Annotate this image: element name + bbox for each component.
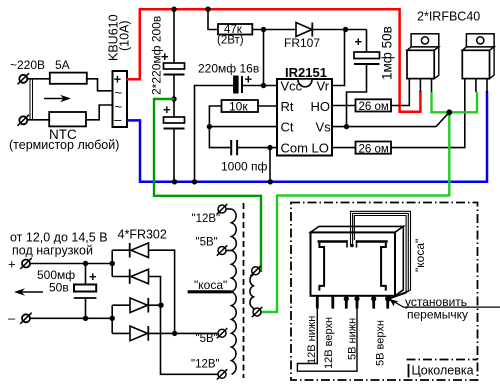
fuse F1 5A <box>50 73 87 84</box>
svg-text:Com: Com <box>281 141 308 156</box>
svg-text:+: + <box>163 102 171 117</box>
capacitor Ct 1000pf <box>231 140 277 155</box>
junction dot red rail cap <box>171 7 176 12</box>
wire D1 cathode left <box>112 249 130 251</box>
svg-text:"12В": "12В" <box>191 359 220 371</box>
kosa wire end blob <box>350 244 354 248</box>
wire Vs diagonal to midpoint <box>436 112 449 126</box>
wire D2 anode right <box>149 277 218 375</box>
svg-text:(2Вт): (2Вт) <box>217 35 244 47</box>
jumper wire pin1 to pin4 <box>297 309 357 372</box>
bobbin window outline <box>318 240 388 290</box>
resistor Rt 10k <box>222 100 259 112</box>
junction dot Com node <box>267 145 272 150</box>
svg-text:26 ом: 26 ом <box>359 143 389 155</box>
terminal tap 5V top <box>217 245 232 255</box>
bobbin 3d top face <box>311 226 404 232</box>
svg-text:"коса": "коса" <box>194 278 227 292</box>
junction dot minus cap <box>83 316 88 321</box>
svg-text:+: + <box>89 269 97 284</box>
wire D4 cathode to 5V tap <box>148 332 218 334</box>
terminal tap 12V top <box>217 204 232 214</box>
wire D4 anode left <box>112 332 130 334</box>
svg-text:Ct: Ct <box>281 120 294 135</box>
resistor 26 ohm HO <box>356 99 392 111</box>
wire Vs line <box>332 126 436 128</box>
kosa wire bundle <box>351 211 411 299</box>
capacitor C4 1mf 50v bootstrap <box>347 30 380 127</box>
wire Vcc feed vertical <box>263 30 265 86</box>
pin solder balls <box>344 296 392 302</box>
svg-text:50в: 50в <box>49 281 69 295</box>
node capacitor midpoint <box>171 96 176 101</box>
capacitor 500mf 50v <box>74 264 97 319</box>
diode D4 FR302 <box>130 326 148 341</box>
junction dot boot node <box>343 27 348 32</box>
terminal tap 12V bottom <box>217 369 228 379</box>
wire input top <box>28 78 50 80</box>
capacitor C2 220mf 200v bottom <box>163 99 185 182</box>
wire HO pin to gate resistor <box>332 105 356 107</box>
transformer T1 secondary winding <box>232 209 237 374</box>
wire D2 cathode left <box>112 276 130 278</box>
wire fuse to bridge <box>87 79 113 91</box>
wire FR107 to boot node <box>312 29 366 31</box>
wire minus bus diodes <box>111 305 113 333</box>
junction dot Vs boot <box>344 124 349 129</box>
wire Ct line <box>209 126 277 128</box>
svg-text:12В верхн: 12В верхн <box>323 317 335 369</box>
terminal output minus <box>8 311 32 326</box>
svg-text:1000 пф: 1000 пф <box>221 160 268 174</box>
capacitor C3 220mf 16v <box>195 71 278 181</box>
svg-text:"коса": "коса" <box>413 239 427 272</box>
wire input bottom <box>28 119 50 121</box>
transformer T1 primary winding <box>250 271 258 312</box>
svg-text:+: + <box>8 257 16 272</box>
svg-text:(термистор любой): (термистор любой) <box>9 138 119 152</box>
junction dot half-bridge midpoint <box>446 109 452 115</box>
svg-text:5В верхн: 5В верхн <box>375 320 387 366</box>
wire Com node to blue rail <box>269 148 271 182</box>
junction dot 47k feed <box>205 7 210 12</box>
junction dot D3 tap <box>158 303 163 308</box>
junction dot plus bus <box>110 261 115 266</box>
wire 47k to FR107 <box>252 29 296 31</box>
svg-text:4*FR302: 4*FR302 <box>118 227 167 241</box>
diode D1 FR302 <box>130 243 149 258</box>
junction dot blue rail cap <box>172 179 177 184</box>
terminal output plus <box>8 257 32 272</box>
wire 26om to M1 gate <box>391 79 409 106</box>
junction dot plus cap <box>83 261 88 266</box>
svg-text:–: – <box>114 112 122 127</box>
arrow output direction <box>14 288 43 296</box>
wire kosa thick <box>188 290 232 293</box>
label KBU610 (10A) rotated <box>106 14 131 61</box>
junction dot Vcc node <box>261 83 266 88</box>
wire green A cap midpoint to primary top <box>154 99 261 271</box>
terminal primary top <box>251 266 262 276</box>
terminal input bottom <box>18 115 30 126</box>
svg-text:5А: 5А <box>55 58 70 72</box>
svg-text:Rt: Rt <box>281 99 294 114</box>
wire boot node to Vr pin <box>332 30 346 86</box>
arrow install jumper <box>390 299 500 307</box>
svg-text:+: + <box>245 71 253 86</box>
bridge rectifier KBU610 <box>113 71 128 127</box>
wire LO pin to gate resistor <box>332 147 356 149</box>
svg-text:+: + <box>161 49 169 64</box>
wire rail to 47k <box>208 9 218 29</box>
capacitor C1 220mf 200v top <box>161 9 185 99</box>
resistor 47k <box>218 24 252 35</box>
wire D3 cathode right <box>148 304 161 306</box>
bobbin pins <box>317 296 387 309</box>
wire green B midpoint to primary bottom <box>261 112 449 312</box>
diode FR107 <box>296 23 312 37</box>
arrow current direction <box>44 95 71 103</box>
svg-text:1мф 50в: 1мф 50в <box>379 26 394 80</box>
svg-text:+: + <box>355 34 363 49</box>
wire Ct node down to 1000pf <box>209 127 231 148</box>
transistor Q2 IRFBC40 <box>462 34 494 92</box>
label tsokolevka <box>408 364 410 378</box>
terminal input top <box>18 73 30 84</box>
label ~220V 5A <box>10 58 70 72</box>
svg-text:~220В: ~220В <box>10 58 45 72</box>
junction dot Vcc feed <box>261 27 266 32</box>
wire D3 anode left <box>112 304 130 306</box>
terminal primary bottom <box>252 307 262 317</box>
junction dot blue rail C3 <box>192 179 197 184</box>
svg-text:LO: LO <box>312 141 329 156</box>
transistor Q1 IRFBC40 <box>407 34 439 92</box>
svg-text:под нагрузкой: под нагрузкой <box>12 243 93 257</box>
wire output minus <box>30 317 112 319</box>
svg-text:"5В": "5В" <box>196 237 218 249</box>
svg-text:"5В": "5В" <box>196 333 218 345</box>
wire blue negative rail <box>127 91 488 182</box>
svg-text:IR2151: IR2151 <box>285 65 327 80</box>
cable pair lines <box>30 79 33 120</box>
svg-text:перемычку: перемычку <box>407 308 468 322</box>
svg-text:5В нижн: 5В нижн <box>347 318 359 360</box>
terminal tap 5V bottom <box>217 328 228 338</box>
svg-text:Цоколевка: Цоколевка <box>412 364 474 378</box>
junction dot blue rail Com <box>268 179 273 184</box>
svg-text:Vcc: Vcc <box>281 79 303 94</box>
bobbin front face <box>311 232 396 295</box>
bobbin 3d right face <box>395 226 403 295</box>
transformer core dashed <box>243 203 245 378</box>
svg-text:10к: 10к <box>229 100 248 114</box>
svg-text:26 ом: 26 ом <box>359 101 389 113</box>
svg-text:HO: HO <box>311 99 331 114</box>
svg-text:(10А): (10А) <box>118 20 132 51</box>
wire 10k right to Rt pin <box>258 105 277 107</box>
thermistor NTC <box>49 112 86 126</box>
diode D3 FR302 <box>130 298 148 313</box>
IC IR2151 U1 <box>277 79 332 156</box>
svg-text:12В нижн: 12В нижн <box>306 316 318 364</box>
junction dot minus bus <box>110 316 115 321</box>
svg-text:"12В": "12В" <box>192 213 221 225</box>
resistor 26 ohm LO <box>356 142 392 154</box>
wire green midpoint M1 source to M2 drain <box>432 92 478 112</box>
svg-text:~: ~ <box>115 85 123 100</box>
svg-text:–: – <box>8 311 16 326</box>
wire NTC to bridge <box>86 105 113 120</box>
diode D2 FR302 <box>130 269 149 284</box>
junction dot Ct node <box>207 124 212 129</box>
svg-text:Vr: Vr <box>317 79 330 94</box>
wire plus bus diodes <box>111 250 113 276</box>
wire 10k left down to Ct line <box>209 106 221 127</box>
tsokolevka compartment line <box>407 359 478 361</box>
svg-text:Vs: Vs <box>316 120 332 135</box>
svg-text:2*IRFBC40: 2*IRFBC40 <box>417 10 480 24</box>
svg-text:FR107: FR107 <box>284 36 320 50</box>
wire D1 anode right <box>149 250 175 333</box>
wire red positive rail <box>127 9 421 112</box>
wire 26om to M2 gate <box>391 79 465 148</box>
junction dot D4 tap <box>172 331 177 336</box>
wire output plus <box>30 263 112 265</box>
pinout box dash-dot border <box>291 203 478 381</box>
